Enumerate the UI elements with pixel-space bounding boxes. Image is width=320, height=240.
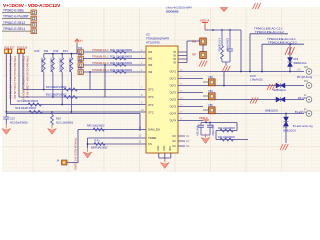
svg-text:+47uF/25V: +47uF/25V <box>196 125 198 137</box>
bead FB1 <box>200 38 207 45</box>
resistor R16 <box>64 95 77 98</box>
svg-text:DIAG_EN: DIAG_EN <box>148 128 160 132</box>
connector P2 <box>31 16 36 21</box>
ground D18 marks <box>280 144 288 150</box>
resistor R17 <box>28 103 41 106</box>
spark gap marks row2 <box>267 84 275 90</box>
capacitor C23 <box>201 123 213 138</box>
svg-text:R40 10kΩ/0603: R40 10kΩ/0603 <box>87 124 105 127</box>
ground mid caps <box>201 134 210 144</box>
svg-text:TP9ASM-D13-E-PWDINT (PWD-IN-1): TP9ASM-D13-E-PWDINT (PWD-IN-1) <box>22 56 26 102</box>
resistor R43 <box>220 138 233 141</box>
svg-text:R-41: R-41 <box>95 139 101 142</box>
svg-text:GND: GND <box>157 145 160 151</box>
svg-text:PR IgH-Dr-2g: PR IgH-Dr-2g <box>297 76 313 79</box>
svg-text:10kΩRJ/0603: 10kΩRJ/0603 <box>49 58 52 73</box>
capacitor C20 <box>221 30 230 66</box>
testpoint TP bottom <box>62 160 68 165</box>
testpoint P18 <box>17 49 21 54</box>
svg-text:TP9ASM-D13-E-IN-1 (DIAG): TP9ASM-D13-E-IN-1 (DIAG) <box>73 138 76 170</box>
svg-text:OTC: OTC <box>148 88 154 92</box>
svg-text:R17 10kΩPJ/0603: R17 10kΩPJ/0603 <box>18 100 39 103</box>
spark gap marks C2 <box>285 47 295 55</box>
svg-text:10kΩRJ/0603: 10kΩRJ/0603 <box>40 58 43 73</box>
resistor R41 <box>94 143 105 146</box>
wire OUT1 long row <box>178 71 304 73</box>
junction dots OUT1 <box>240 71 291 73</box>
svg-text:NC: NC <box>173 145 177 148</box>
svg-text:TP5A5M0AQPWPR: TP5A5M0AQPWPR <box>146 37 169 41</box>
TVS D19 <box>276 97 285 102</box>
svg-text:FB6: FB6 <box>192 42 197 44</box>
svg-text:HTSSOP28: HTSSOP28 <box>146 41 160 45</box>
resistor R11 <box>52 54 55 97</box>
svg-text:FB7: FB7 <box>192 55 197 57</box>
wire VDD-A rail <box>205 30 241 72</box>
wire CS ground vertical <box>87 138 89 149</box>
svg-text:SMBJ12CA: SMBJ12CA <box>294 62 307 65</box>
junction dot rail caps <box>205 122 211 124</box>
svg-text:4.7uF/50Vdc: 4.7uF/50Vdc <box>218 38 221 52</box>
bead jumper 2 stub <box>203 95 209 97</box>
wire LINE-C2 <box>262 44 304 71</box>
svg-text:NC: NC <box>186 140 190 143</box>
svg-text:TIMER: TIMER <box>148 136 156 140</box>
svg-text:NC: NC <box>173 135 177 138</box>
svg-text:NC/100uF/0603: NC/100uF/0603 <box>10 122 28 125</box>
ground IC <box>160 159 169 169</box>
svg-text:OUT4: OUT4 <box>170 120 177 123</box>
wire OUT4 long row <box>178 113 304 115</box>
svg-text:CS: CS <box>148 142 152 146</box>
svg-text:OUT3: OUT3 <box>170 99 177 102</box>
junction dots V+ rail <box>52 53 72 55</box>
ground CS <box>83 148 92 158</box>
IC bottom ground stubs <box>159 153 171 161</box>
wire port4 <box>2 30 31 32</box>
svg-text:OTC: OTC <box>148 95 154 99</box>
svg-text:TP9ASM-D13-E-SBA-1 (SBA-IN-1): TP9ASM-D13-E-SBA-1 (SBA-IN-1) <box>26 56 30 98</box>
svg-text:1 Ma/%/101: 1 Ma/%/101 <box>250 79 263 82</box>
svg-text:TP9AC-E-SEL2: TP9AC-E-SEL2 <box>3 21 26 25</box>
bead jumper 1 stub <box>203 81 209 83</box>
junction dot D18 <box>285 113 287 115</box>
power V+ symbol <box>75 39 83 45</box>
junction dot R16/R11 <box>52 96 54 98</box>
svg-text:C10: C10 <box>10 118 15 121</box>
power VDD-A mid bar <box>203 120 209 123</box>
svg-text:IN4: IN4 <box>148 70 153 74</box>
wire IN2 row <box>83 58 146 60</box>
resistor R31 <box>113 57 126 60</box>
spark gap marks power <box>199 61 207 67</box>
TVS D17 <box>276 83 285 88</box>
svg-text:TP5A5M-D1-1: TP5A5M-D1-1 <box>92 48 109 52</box>
resistor R30 <box>113 51 126 54</box>
svg-text:D16: D16 <box>294 58 299 61</box>
wire port3 <box>2 24 31 26</box>
svg-text:TP5A5M-D1-3: TP5A5M-D1-3 <box>92 61 109 65</box>
svg-text:GND: GND <box>163 145 166 151</box>
wire pullup IN4 vertical <box>89 72 91 90</box>
svg-text:R16 10kΩPJ/0603: R16 10kΩPJ/0603 <box>46 94 67 97</box>
wire DIAG_EN left vertical <box>67 130 78 163</box>
svg-text:OUT2: OUT2 <box>170 92 177 95</box>
svg-text:TP9AC-E-SEL1: TP9AC-E-SEL1 <box>3 27 26 31</box>
svg-text:D18: D18 <box>283 126 288 129</box>
wire port2 <box>2 18 31 20</box>
wire VDD-A mid rail <box>201 123 237 131</box>
svg-text:OUT1: OUT1 <box>170 71 177 74</box>
svg-text:U3: U3 <box>146 33 150 37</box>
testpoint P17 <box>8 49 12 54</box>
ground caps marks <box>222 66 230 72</box>
connector P1 <box>31 10 36 15</box>
ground R19 <box>48 125 57 135</box>
bead jumper 1 <box>209 79 216 86</box>
wire 22k pair <box>216 131 248 140</box>
svg-text:TP9AC-E-PwdINT: TP9AC-E-PwdINT <box>3 15 29 19</box>
wire D18 leads <box>285 114 287 144</box>
resistor R40 <box>93 128 104 131</box>
svg-text:R15 10kΩPJ/0603: R15 10kΩPJ/0603 <box>46 86 67 89</box>
wire LINE-C1 <box>250 34 288 72</box>
wire pullup IN3 vertical <box>104 65 106 97</box>
IC right OUT stubs <box>178 79 203 121</box>
bead jumper 2 <box>209 93 216 100</box>
svg-text:NC/1.2kΩ/0603: NC/1.2kΩ/0603 <box>56 122 74 125</box>
svg-text:V+: V+ <box>80 39 84 43</box>
svg-text:Im: Im <box>304 108 307 111</box>
capacitor C22 <box>198 123 204 136</box>
capacitor C21 <box>227 30 233 62</box>
IC U3 body <box>146 46 178 153</box>
wire DIAG_EN row <box>78 129 146 131</box>
junction dot C10 <box>5 111 7 113</box>
svg-text:FB5: FB5 <box>209 105 214 107</box>
junction dot R17/R12 <box>61 104 63 106</box>
spark gap marks row3 <box>250 98 258 104</box>
IC right NC stubs <box>178 136 185 146</box>
svg-text:NC: NC <box>173 140 177 143</box>
svg-text:OUT3: OUT3 <box>170 106 177 109</box>
resistor R18 <box>29 110 42 113</box>
wire net SBA vertical <box>23 54 146 90</box>
wire CS row <box>88 143 147 145</box>
wire IN3 row <box>83 64 146 66</box>
svg-text:SMBJ12CA: SMBJ12CA <box>283 130 296 133</box>
svg-text:10kΩRJ/0603: 10kΩRJ/0603 <box>68 58 71 73</box>
spark gap marks top right <box>253 3 261 9</box>
svg-text:TP9AC-E-SBa: TP9AC-E-SBa <box>3 9 24 13</box>
resistor R13 <box>70 54 73 112</box>
svg-text:R12: R12 <box>54 49 59 53</box>
svg-text:Im: Im <box>304 94 307 97</box>
svg-text:PAD: PAD <box>169 146 172 151</box>
svg-text:SMBJ12CA: SMBJ12CA <box>265 110 278 113</box>
junction dot CS <box>87 143 89 145</box>
svg-text:IN2: IN2 <box>148 57 153 61</box>
svg-text:Dr4: Dr4 <box>304 80 309 83</box>
bead FB2 <box>200 52 207 59</box>
svg-text:VDD-A: VDD-A <box>200 19 209 23</box>
svg-text:SMBJ12CA: SMBJ12CA <box>273 89 286 92</box>
IC U3 bottom pin names rotated <box>157 145 172 151</box>
IC U3 pin names <box>148 50 160 146</box>
svg-text:NC: NC <box>186 145 190 148</box>
junction dot R19 <box>51 111 53 113</box>
svg-text:NC: NC <box>298 68 302 71</box>
svg-text:TP5A5M-D1-2: TP5A5M-D1-2 <box>92 55 109 59</box>
testpoint P16 <box>5 49 9 54</box>
junction dots VDD rail <box>212 29 231 31</box>
power VDD-A top bar <box>202 23 208 31</box>
svg-text:OUT4: OUT4 <box>170 113 177 116</box>
connector P3 <box>31 23 36 28</box>
bead jumper 3 stub <box>203 109 209 111</box>
ground arrow top <box>221 8 228 12</box>
IC U3 right pin names <box>170 51 177 148</box>
svg-text:OUT2: OUT2 <box>170 85 177 88</box>
svg-text:R19: R19 <box>56 118 61 121</box>
svg-text:TP5A5M-D1-4: TP5A5M-D1-4 <box>92 68 109 72</box>
pin circle Dr4 <box>306 83 312 89</box>
wire port1 <box>2 12 31 14</box>
svg-text:10kΩRJ/0603: 10kΩRJ/0603 <box>59 58 62 73</box>
wire D16 leads <box>289 44 291 71</box>
pin circle Im2 <box>306 111 312 117</box>
TVS D16 <box>288 58 293 67</box>
wire net SEL1 vertical <box>6 54 146 112</box>
wire TIMER row <box>88 137 147 139</box>
pin circle Im1 <box>306 97 312 103</box>
wire net SEL2 vertical <box>11 54 147 105</box>
junction dot R18/R13 <box>71 111 73 113</box>
resistor R32 <box>113 64 126 67</box>
wire bead link <box>202 45 204 52</box>
wire link rows 1-2 <box>223 72 225 86</box>
TVS D18 <box>284 117 289 126</box>
junction dot R15/R10 <box>43 89 45 91</box>
resistor R15 <box>64 88 77 91</box>
wire IN1 row <box>83 51 146 53</box>
wire R18 row <box>6 114 140 132</box>
svg-text:NC: NC <box>186 135 190 138</box>
svg-text:R18 10kΩPJ/0603: R18 10kΩPJ/0603 <box>16 107 37 110</box>
junction dot IN4 pullup <box>89 71 91 73</box>
wire V+ rail <box>44 44 77 54</box>
svg-text:OUT1: OUT1 <box>170 78 177 81</box>
resistor R33 <box>113 71 126 74</box>
resistor R10 <box>42 54 45 90</box>
pin circle Dr9 <box>306 69 312 75</box>
svg-text:IN1: IN1 <box>148 50 153 54</box>
svg-text:100nF/0402: 100nF/0402 <box>226 38 229 51</box>
svg-text:OTC: OTC <box>148 111 154 115</box>
wire OUT2 long row <box>178 85 304 87</box>
wire net PWD vertical <box>19 54 146 97</box>
testpoint P19 <box>21 49 25 54</box>
svg-text:R13: R13 <box>63 49 68 53</box>
svg-text:B Latch unres mg: B Latch unres mg <box>293 125 313 128</box>
svg-text:600PωPL/0603: 600PωPL/0603 <box>91 146 108 149</box>
junction dot IN3 pullup <box>104 64 106 66</box>
ground C10 <box>2 125 11 135</box>
svg-text:SOD5AB: SOD5AB <box>166 10 179 14</box>
svg-text:OTC: OTC <box>148 103 154 107</box>
junction dot link <box>223 85 225 87</box>
svg-text:22nF/0402: 22nF/0402 <box>211 125 213 137</box>
svg-text:R-C8: R-C8 <box>250 75 256 78</box>
svg-text:FB3: FB3 <box>209 77 214 79</box>
wire OUT3 long row <box>178 99 304 101</box>
resistor R42 <box>220 129 233 132</box>
svg-text:FB4: FB4 <box>209 91 214 93</box>
connector P4 <box>31 29 36 34</box>
wire IN4 row <box>83 71 146 73</box>
pin numbers control rows <box>141 87 144 113</box>
IC right VS stubs <box>178 41 200 63</box>
resistor R19 <box>51 112 54 125</box>
bead jumper 3 <box>209 107 216 114</box>
resistor R12 <box>61 54 64 105</box>
svg-text:R11: R11 <box>44 49 49 53</box>
svg-text:IN3: IN3 <box>148 63 153 67</box>
svg-text:Dr9: Dr9 <box>304 66 309 69</box>
svg-text:TP9ASM-D13-E-SEL-2 (SEL-IN-02): TP9ASM-D13-E-SEL-2 (SEL-IN-02) <box>13 56 17 99</box>
svg-text:R10: R10 <box>35 49 40 53</box>
junction dot D16 top <box>289 43 291 45</box>
capacitor C10 <box>3 112 9 125</box>
pin numbers right stubs <box>180 70 183 121</box>
